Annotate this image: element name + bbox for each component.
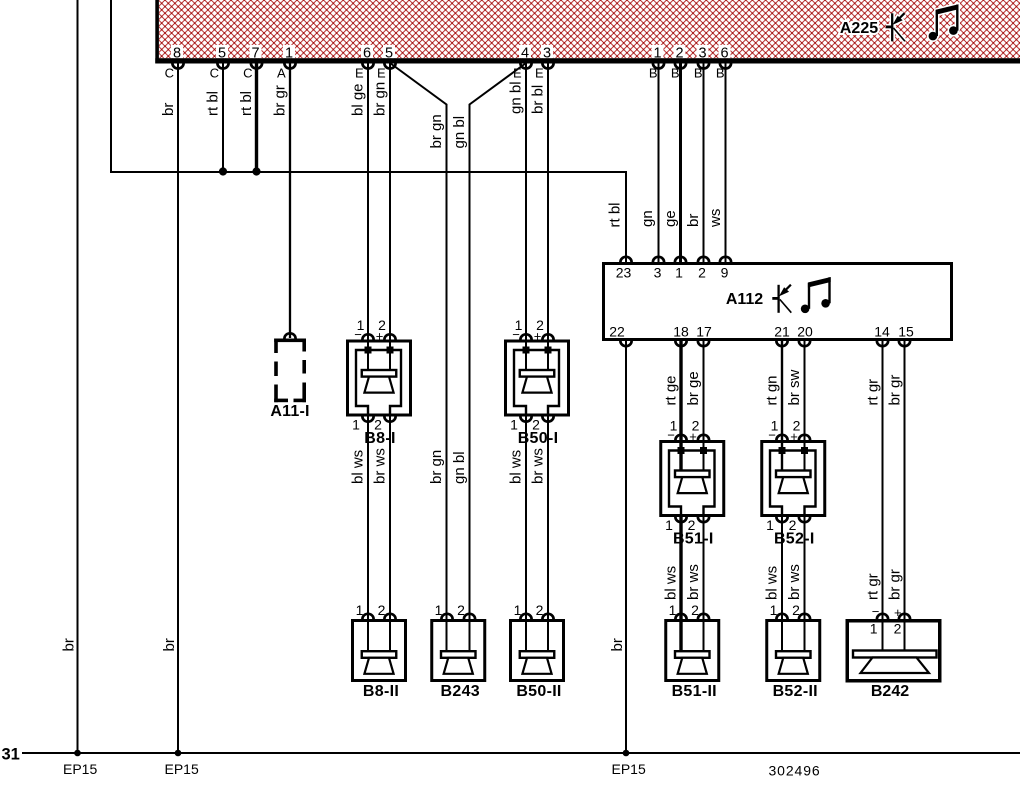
svg-text:2: 2	[536, 602, 544, 618]
svg-text:2: 2	[378, 602, 386, 618]
wire bl ws, B8-I pin 1 to B8-II pin 1	[367, 415, 369, 651]
radio A225 pin 6E number	[361, 45, 373, 58]
speaker B51-I pin 2 bottom connector	[698, 517, 709, 522]
speaker B8-I symbol	[362, 370, 397, 377]
speaker B52-I symbol	[776, 471, 811, 478]
speaker B51-II pin 1 connector	[675, 614, 686, 619]
speaker B50-I symbol	[520, 370, 555, 377]
speaker B8-I pin 1 top connector	[362, 334, 373, 339]
svg-text:17: 17	[696, 324, 712, 340]
svg-text:1: 1	[356, 602, 364, 618]
svg-text:rt gr: rt gr	[865, 379, 882, 406]
svg-text:E: E	[535, 66, 544, 81]
svg-text:rt bl: rt bl	[205, 91, 222, 116]
A112 bottom pin 15 connector	[899, 341, 910, 346]
wire gn bl, A225 pin 4E branch to B243 pin 2	[470, 63, 527, 652]
svg-text:bl ws: bl ws	[663, 566, 680, 600]
svg-text:gn bl: gn bl	[508, 81, 525, 114]
svg-text:1: 1	[665, 517, 673, 533]
speaker B51-I outer box	[661, 442, 724, 516]
svg-text:B50-II: B50-II	[516, 683, 561, 700]
speaker B50-I junction dot pin 2	[545, 347, 552, 354]
svg-text:1: 1	[285, 46, 293, 62]
ground node EP15 left	[74, 750, 81, 757]
svg-text:+: +	[790, 429, 798, 444]
speaker B52-II pin 1 connector	[776, 614, 787, 619]
A112 bottom pin 14 connector	[877, 341, 888, 346]
radio A225 pin 4E connector	[520, 63, 531, 68]
svg-text:+: +	[376, 329, 384, 344]
speaker B8-II box	[353, 621, 406, 681]
speaker B51-I inner outline	[669, 451, 715, 517]
A112 top pin 9 connector	[720, 257, 731, 262]
speaker B51-I pin 1 bottom connector	[675, 517, 686, 522]
wire br ws, B8-I pin 2 to B8-II pin 2	[389, 415, 391, 651]
speaker B243 symbol	[441, 651, 476, 658]
svg-text:br ws: br ws	[530, 448, 547, 484]
wire bl ge, A225 pin 6E to B8-I pin 1	[367, 63, 369, 371]
speaker B51-I pin 2 top connector	[698, 435, 709, 440]
svg-text:rt bl: rt bl	[238, 91, 255, 116]
speaker B50-I pin 1 bottom connector	[520, 417, 531, 422]
svg-text:8: 8	[173, 46, 181, 62]
speaker B8-I inner outline	[356, 350, 401, 416]
svg-text:+: +	[894, 605, 902, 620]
svg-text:1: 1	[766, 517, 774, 533]
speaker B50-I inner outline	[514, 350, 559, 416]
svg-text:1: 1	[870, 621, 878, 637]
svg-text:br: br	[160, 103, 177, 116]
radio A225 pin 8C connector	[172, 63, 183, 68]
svg-text:3: 3	[698, 46, 706, 62]
A112 top pin 23 connector	[620, 257, 631, 262]
svg-text:3: 3	[654, 265, 662, 281]
radio A225 music notes icon	[927, 30, 939, 42]
radio A225 pin 7C connector	[251, 63, 262, 68]
svg-text:br: br	[685, 214, 702, 227]
wire bl ws, B51-I pin 1 to B51-II pin 1	[679, 517, 682, 652]
wire rt ge, A112 pin 18 to B51-I pin 1	[679, 341, 682, 471]
svg-text:−: −	[512, 327, 520, 342]
radio A225 pin 8C number	[171, 45, 183, 58]
radio A225 bottom border	[155, 58, 1020, 63]
svg-text:2: 2	[675, 46, 683, 62]
speaker B52-II pin 2 connector	[799, 614, 810, 619]
speaker B243 box	[432, 621, 485, 681]
svg-text:B: B	[671, 66, 680, 81]
svg-text:2: 2	[691, 602, 699, 618]
svg-text:br: br	[609, 638, 626, 651]
svg-text:18: 18	[673, 324, 689, 340]
svg-text:br gn: br gn	[372, 82, 389, 116]
svg-text:br gn: br gn	[428, 114, 445, 148]
wire br gr, A225 pin 1A to A11-I	[289, 63, 291, 338]
speaker B50-I pin 1 top connector	[520, 334, 531, 339]
svg-text:5: 5	[218, 46, 226, 62]
speaker B242 symbol	[853, 651, 937, 658]
svg-text:B51-II: B51-II	[672, 683, 717, 700]
speaker B51-I symbol	[675, 471, 710, 478]
speaker B50-I junction dot pin 1	[523, 347, 530, 354]
speaker B8-I outer box	[348, 341, 411, 415]
svg-text:bl ws: bl ws	[508, 450, 525, 484]
radio A225 pin 1B number	[652, 45, 664, 58]
speaker B242 pin 1 connector	[877, 614, 888, 619]
wire ge, A225 pin 3B to A112 pin 2	[703, 63, 705, 262]
wire rt gr, A112 pin 14 to B242 pin 1	[882, 341, 884, 651]
svg-text:2: 2	[698, 265, 706, 281]
radio A225 pin 5E number	[383, 45, 395, 58]
speaker B52-I pin 2 top connector	[799, 435, 810, 440]
svg-text:−: −	[354, 327, 362, 342]
svg-text:4: 4	[521, 46, 529, 62]
wire bl ws, B52-I pin 1 to B52-II pin 1	[781, 517, 783, 652]
wire bl ws, B50-I pin 1 to B50-II pin 1	[525, 415, 527, 651]
svg-text:C: C	[165, 66, 174, 81]
speaker B50-II box	[511, 621, 564, 681]
speaker B51-II box	[666, 621, 719, 681]
svg-text:A11-I: A11-I	[270, 403, 309, 420]
connector A11-I dashed box	[274, 339, 306, 403]
speaker B52-I outer box	[762, 442, 825, 516]
radio A225 pin 2B connector	[675, 63, 686, 68]
svg-text:23: 23	[616, 265, 632, 281]
wire br gr, A112 pin 15 to B242 pin 2	[904, 341, 906, 651]
svg-text:br gr: br gr	[886, 569, 903, 600]
svg-text:gn: gn	[639, 210, 656, 227]
speaker B8-II pin 2 connector	[384, 614, 395, 619]
wire rt bl, A225 pin 1B to A112 pin 3	[658, 63, 660, 262]
speaker B51-I pin 1 top connector	[675, 435, 686, 440]
svg-text:3: 3	[543, 46, 551, 62]
svg-text:2: 2	[457, 602, 465, 618]
speaker B52-I pin 2 bottom connector	[799, 517, 810, 522]
wire rt bl, A225 pin 7C to bus junction	[255, 63, 258, 172]
svg-text:br gr: br gr	[272, 85, 289, 116]
svg-text:ws: ws	[707, 209, 724, 228]
radio A225 pin 3E connector	[542, 63, 553, 68]
speaker B242 pin 2 connector	[899, 614, 910, 619]
speaker B51-II pin 2 connector	[698, 614, 709, 619]
svg-text:bl ws: bl ws	[350, 450, 367, 484]
speaker B8-I junction dot pin 1	[365, 347, 372, 354]
junction node at bus x=223	[219, 167, 227, 175]
wire gn bl, A225 pin 4E to B50-I pin 1	[525, 63, 527, 371]
svg-text:1: 1	[675, 265, 683, 281]
svg-text:1: 1	[435, 602, 443, 618]
svg-text:br: br	[161, 638, 178, 651]
A112 top pin 2 connector	[698, 257, 709, 262]
svg-text:br ge: br ge	[685, 371, 702, 405]
svg-text:C: C	[243, 66, 252, 81]
svg-text:20: 20	[797, 324, 813, 340]
amplifier A112 box	[604, 264, 952, 340]
radio A225 pin 6B connector	[720, 63, 731, 68]
wire br gn, A225 pin 5E branch to B243 pin 1	[390, 63, 447, 652]
wire ws, A225 pin 6B to A112 pin 9	[725, 63, 727, 262]
svg-text:1: 1	[514, 602, 522, 618]
radio A225 pin 5E connector	[384, 63, 395, 68]
svg-text:br sw: br sw	[786, 369, 803, 405]
speaker B52-II symbol	[776, 651, 811, 658]
radio A225 left border	[155, 0, 159, 63]
speaker B52-I inner outline	[770, 451, 816, 517]
speaker B8-I pin 2 bottom connector	[384, 417, 395, 422]
svg-text:ge: ge	[662, 210, 679, 227]
A112 bottom pin 17 connector	[698, 341, 709, 346]
speaker B51-II symbol	[675, 651, 710, 658]
speaker B243 pin 2 connector	[464, 614, 475, 619]
svg-text:B8-I: B8-I	[364, 430, 395, 447]
svg-text:B: B	[694, 66, 703, 81]
radio A225 pin 1B connector	[653, 63, 664, 68]
ground node EP15 right	[623, 750, 630, 757]
A112 bottom pin 21 connector	[776, 341, 787, 346]
svg-text:−: −	[768, 428, 776, 443]
svg-text:EP15: EP15	[612, 761, 646, 777]
speaker B8-I junction dot pin 2	[387, 347, 394, 354]
svg-text:−: −	[872, 604, 880, 619]
svg-text:A112: A112	[726, 291, 763, 308]
ground rail 31	[22, 752, 1020, 754]
speaker B50-II pin 2 connector	[542, 614, 553, 619]
wire br, A112 pin 22 to ground	[625, 341, 627, 753]
svg-text:br ws: br ws	[786, 564, 803, 600]
svg-text:14: 14	[874, 324, 890, 340]
svg-text:gn bl: gn bl	[451, 116, 468, 149]
svg-text:B: B	[649, 66, 658, 81]
junction node at bus x=256.5	[252, 167, 260, 175]
svg-text:5: 5	[385, 46, 393, 62]
radio A225 pin 3B connector	[698, 63, 709, 68]
svg-text:rt gn: rt gn	[764, 375, 781, 405]
radio A225 pin 3B number	[697, 45, 709, 58]
A112 bottom pin 22 connector	[620, 341, 631, 346]
radio A225 pin 5C connector	[217, 63, 228, 68]
svg-text:B52-II: B52-II	[773, 683, 818, 700]
svg-text:+: +	[534, 329, 542, 344]
svg-text:bl ws: bl ws	[764, 566, 781, 600]
speaker B50-I outer box	[506, 341, 569, 415]
A112 bottom pin 18 connector	[675, 341, 686, 346]
svg-text:+: +	[689, 429, 697, 444]
svg-text:22: 22	[609, 324, 625, 340]
svg-text:2: 2	[894, 621, 902, 637]
radio A225 antenna icon	[889, 13, 895, 41]
svg-text:br ws: br ws	[685, 564, 702, 600]
svg-text:21: 21	[774, 324, 790, 340]
wire br ws, B50-I pin 2 to B50-II pin 2	[547, 415, 549, 651]
connector A11-I pin connector	[284, 333, 295, 338]
wire br ws, B52-I pin 2 to B52-II pin 2	[804, 517, 806, 652]
svg-text:gn bl: gn bl	[451, 451, 468, 484]
wire rt gn, A112 pin 21 to B52-I pin 1	[781, 341, 783, 471]
svg-text:br: br	[61, 638, 78, 651]
speaker B242 box	[847, 621, 940, 681]
amplifier A112 music notes icon	[801, 305, 810, 314]
svg-text:br ws: br ws	[372, 448, 389, 484]
radio A225 body (hatched)	[159, 0, 1020, 58]
speaker B8-II symbol	[362, 651, 397, 658]
svg-text:−: −	[667, 428, 675, 443]
svg-text:1: 1	[352, 417, 360, 433]
speaker B243 pin 1 connector	[441, 614, 452, 619]
svg-text:br bl: br bl	[530, 85, 547, 114]
wire rt bl, off-page to junction bus	[111, 0, 626, 262]
speaker B50-I pin 2 bottom connector	[542, 417, 553, 422]
A112 bottom pin 20 connector	[799, 341, 810, 346]
radio A225 pin 7C number	[250, 45, 262, 58]
svg-text:br gn: br gn	[428, 450, 445, 484]
svg-text:rt bl: rt bl	[607, 202, 624, 227]
svg-text:EP15: EP15	[63, 761, 97, 777]
radio A225 pin 5C number	[216, 45, 228, 58]
svg-text:1: 1	[669, 602, 677, 618]
svg-text:C: C	[210, 66, 219, 81]
radio A225 pin 1A number	[283, 45, 295, 58]
radio A225 pin 6B number	[719, 45, 731, 58]
A112 top pin 1 connector	[675, 257, 686, 262]
radio A225 pin 2B number	[674, 45, 686, 58]
svg-text:1: 1	[770, 602, 778, 618]
svg-text:6: 6	[363, 46, 371, 62]
svg-text:B242: B242	[871, 683, 909, 700]
wire br sw, A112 pin 20 to B52-I pin 2	[804, 341, 806, 471]
speaker B8-I pin 1 bottom connector	[362, 417, 373, 422]
svg-text:A: A	[277, 66, 286, 81]
svg-text:6: 6	[720, 46, 728, 62]
radio A225 pin 4E number	[519, 45, 531, 58]
speaker B8-II pin 1 connector	[362, 614, 373, 619]
svg-text:EP15: EP15	[165, 761, 199, 777]
amplifier A112 antenna icon	[777, 285, 779, 313]
speaker B50-II pin 1 connector	[520, 614, 531, 619]
speaker B50-I pin 2 top connector	[542, 334, 553, 339]
speaker B52-I pin 1 top connector	[776, 435, 787, 440]
svg-text:7: 7	[251, 46, 259, 62]
svg-text:302496: 302496	[769, 763, 821, 779]
svg-text:9: 9	[721, 265, 729, 281]
svg-text:E: E	[355, 66, 364, 81]
speaker B8-I pin 2 top connector	[384, 334, 395, 339]
svg-text:1: 1	[653, 46, 661, 62]
svg-text:B8-II: B8-II	[363, 683, 399, 700]
radio A225 pin 6E connector	[362, 63, 373, 68]
ground node EP15 mid	[175, 750, 182, 757]
svg-text:B52-I: B52-I	[774, 531, 815, 548]
svg-text:br gr: br gr	[886, 375, 903, 406]
svg-text:A225: A225	[840, 20, 878, 37]
svg-text:31: 31	[2, 746, 20, 764]
speaker B52-I pin 1 bottom connector	[776, 517, 787, 522]
svg-text:B50-I: B50-I	[518, 430, 559, 447]
wire gn, A225 pin 2B to A112 pin 1	[679, 63, 682, 262]
speaker B50-II symbol	[520, 651, 555, 658]
svg-text:bl ge: bl ge	[350, 83, 367, 116]
svg-text:B: B	[716, 66, 725, 81]
radio A225 pin 3E number	[541, 45, 553, 58]
svg-text:2: 2	[792, 602, 800, 618]
speaker B52-I junction dot pin 2	[801, 447, 808, 454]
svg-text:E: E	[377, 66, 386, 81]
svg-text:rt gr: rt gr	[865, 573, 882, 600]
radio A225 pin 1A connector	[284, 63, 295, 68]
svg-text:B51-I: B51-I	[673, 531, 714, 548]
speaker B51-I junction dot pin 1	[678, 447, 685, 454]
svg-text:rt ge: rt ge	[663, 375, 680, 405]
speaker B51-I junction dot pin 2	[700, 447, 707, 454]
svg-text:B243: B243	[441, 683, 480, 700]
wire br ge, A112 pin 17 to B51-I pin 2	[703, 341, 705, 471]
A112 top pin 3 connector	[653, 257, 664, 262]
wire br bl, A225 pin 3E to B50-I pin 2	[547, 63, 549, 371]
speaker B52-I junction dot pin 1	[779, 447, 786, 454]
wire rt bl, A225 pin 5C to bus junction	[222, 63, 224, 172]
speaker B52-II box	[767, 621, 820, 681]
wire br, A225 pin 8C to ground	[177, 63, 179, 753]
wire br gn, A225 pin 5E to B8-I pin 2	[389, 63, 391, 371]
wire br, off-page left to ground	[77, 0, 79, 753]
svg-text:15: 15	[898, 324, 914, 340]
wire br ws, B51-I pin 2 to B51-II pin 2	[703, 517, 705, 652]
